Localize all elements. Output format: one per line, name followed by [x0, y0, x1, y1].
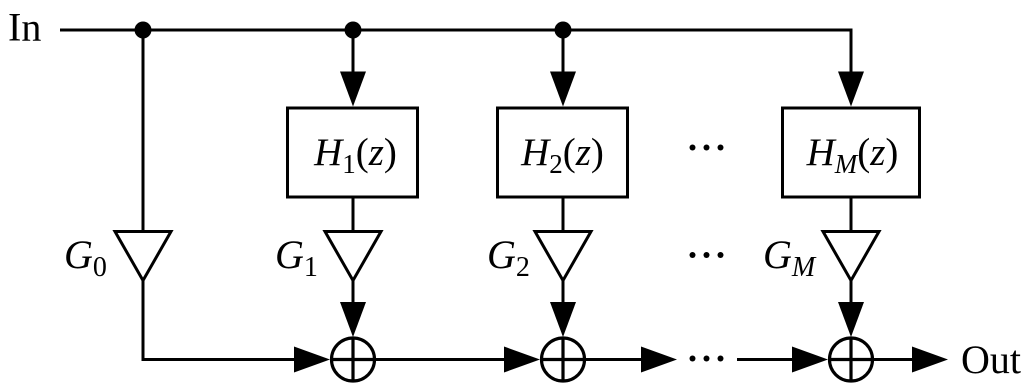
- svg-text:H1(z): H1(z): [313, 131, 397, 179]
- node junction dot column 0: [135, 22, 152, 39]
- arrowhead bottom bus into adder 1: [294, 347, 330, 373]
- adder M: [830, 338, 873, 381]
- arrowhead bottom bus before ellipsis: [641, 347, 677, 373]
- gain triangle G0: [115, 232, 171, 281]
- arrowhead into filter H1: [340, 72, 366, 107]
- gain triangle G1: [325, 232, 381, 281]
- gain triangle GM: [823, 232, 879, 281]
- node junction dot column 2: [555, 22, 572, 39]
- wire: column 2 drop from junction into filter: [562, 30, 565, 80]
- arrowhead bottom bus into adder M: [792, 347, 828, 373]
- wire: column 1 drop from junction into filter: [352, 30, 355, 80]
- filter block H1(z): [288, 108, 418, 197]
- wire: bottom bus adder M to output: [872, 358, 918, 361]
- wire: column 0 from G0 down to bottom bus: [143, 280, 302, 360]
- wire: column 2 from G2 to adder: [562, 280, 565, 305]
- wire: column 0 drop from top bus to gain G0: [142, 30, 145, 231]
- wire: top bus from In to branch M corner, turning down: [60, 30, 851, 80]
- wire: column M from filter to gain GM: [850, 197, 853, 232]
- arrowhead into adder 1: [340, 302, 366, 337]
- arrowhead into filter H2: [550, 72, 576, 107]
- wire: column 1 from filter to gain G1: [352, 197, 355, 232]
- gain triangle G2: [535, 232, 591, 281]
- wire: bottom bus adder2 toward ellipsis: [584, 358, 646, 361]
- svg-text:In: In: [8, 5, 41, 50]
- ellipsis dots at filter level: [690, 145, 696, 151]
- wire: column M from GM to adder: [850, 280, 853, 305]
- arrowhead bottom bus into adder 2: [504, 347, 540, 373]
- arrowhead into adder M: [838, 302, 864, 337]
- wire: column 1 from G1 to adder: [352, 280, 355, 305]
- filter block HM(z): [783, 108, 920, 197]
- arrowhead into filter HM: [838, 72, 864, 107]
- node junction dot column 1: [345, 22, 362, 39]
- wire: bottom bus ellipsis to adder M: [737, 358, 797, 361]
- adder 2: [542, 338, 585, 381]
- arrowhead into adder 2: [550, 302, 576, 337]
- adder 1: [332, 338, 375, 381]
- arrowhead to Out: [912, 347, 948, 373]
- svg-text:H2(z): H2(z): [520, 131, 604, 179]
- filter block H2(z): [498, 108, 628, 197]
- ellipsis dots at bottom bus level: [690, 356, 696, 362]
- wire: bottom bus adder1 to adder2: [374, 358, 508, 361]
- wire: column 2 from filter to gain G2: [562, 197, 565, 232]
- svg-text:Out: Out: [961, 337, 1021, 382]
- ellipsis dots at gain level: [690, 252, 696, 258]
